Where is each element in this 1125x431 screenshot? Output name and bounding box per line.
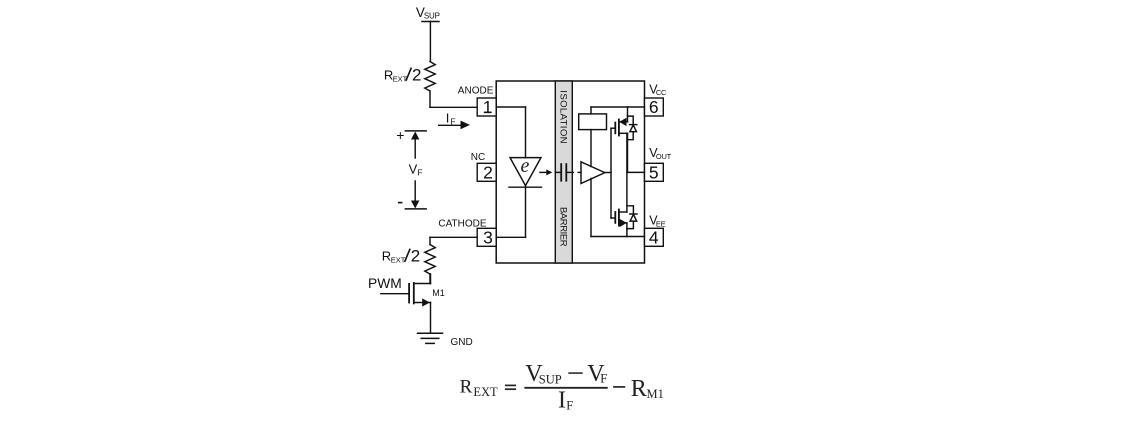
svg-text:+: + — [396, 127, 404, 143]
svg-text:R: R — [631, 376, 647, 402]
svg-text:e: e — [521, 155, 530, 177]
svg-text:EXT: EXT — [391, 255, 406, 264]
svg-text:BARRIER: BARRIER — [558, 207, 569, 247]
svg-text:4: 4 — [649, 228, 659, 248]
svg-text:6: 6 — [649, 97, 659, 117]
svg-text:3: 3 — [483, 228, 493, 248]
svg-text:CATHODE: CATHODE — [438, 219, 486, 230]
svg-text:NC: NC — [471, 152, 485, 163]
svg-text:F: F — [566, 398, 573, 412]
svg-text:M1: M1 — [432, 288, 445, 298]
svg-text:PWM: PWM — [368, 276, 402, 291]
svg-text:EXT: EXT — [473, 385, 498, 399]
svg-text:5: 5 — [649, 163, 659, 183]
svg-text:ISOLATION: ISOLATION — [557, 90, 568, 144]
svg-text:1: 1 — [483, 97, 493, 117]
svg-text:I: I — [558, 388, 566, 414]
svg-text:ANODE: ANODE — [458, 86, 494, 97]
svg-text:I: I — [446, 111, 450, 126]
svg-text:2: 2 — [483, 163, 493, 183]
svg-text:F: F — [600, 372, 607, 386]
svg-text:2: 2 — [411, 247, 420, 266]
svg-text:EXT: EXT — [393, 74, 408, 83]
svg-text:R: R — [460, 376, 473, 397]
svg-text:CC: CC — [656, 88, 667, 97]
svg-text:SUP: SUP — [424, 12, 440, 21]
svg-text:2: 2 — [412, 65, 421, 84]
svg-text:F: F — [417, 168, 422, 178]
svg-text:SUP: SUP — [539, 372, 562, 386]
svg-text:OUT: OUT — [656, 152, 672, 161]
svg-text:GND: GND — [451, 337, 473, 348]
svg-text:F: F — [450, 117, 455, 127]
svg-text:M1: M1 — [647, 387, 664, 401]
